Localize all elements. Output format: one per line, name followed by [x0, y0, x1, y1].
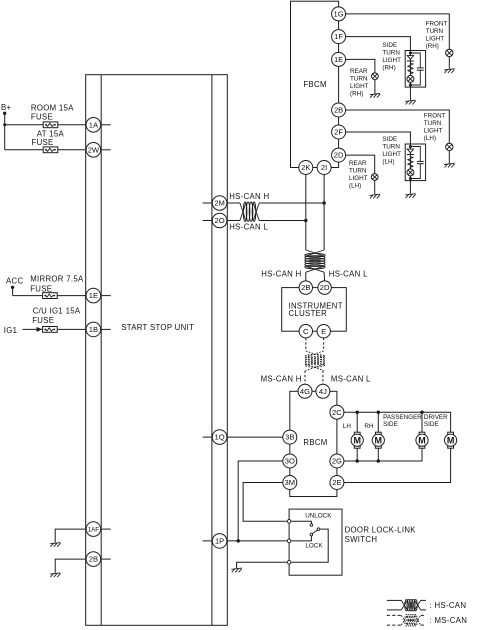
- svg-text:HS-CAN L: HS-CAN L: [329, 270, 368, 279]
- svg-text:RBCM: RBCM: [303, 438, 327, 447]
- svg-text:SIDE: SIDE: [383, 421, 398, 428]
- svg-text:1E: 1E: [334, 55, 343, 64]
- svg-text:MS-CAN H: MS-CAN H: [261, 375, 302, 384]
- svg-text:LOCK: LOCK: [305, 542, 323, 549]
- svg-text:2M: 2M: [214, 199, 225, 208]
- svg-text:1Q: 1Q: [215, 433, 225, 442]
- svg-text:2O: 2O: [215, 216, 225, 225]
- svg-text:REAR: REAR: [349, 160, 367, 167]
- svg-text:(RH): (RH): [382, 65, 395, 72]
- svg-text:1F: 1F: [334, 32, 343, 41]
- svg-text:TURN: TURN: [382, 143, 400, 150]
- svg-text:2B: 2B: [89, 555, 98, 564]
- svg-text:1E: 1E: [89, 291, 98, 300]
- svg-text:TURN: TURN: [349, 167, 367, 174]
- svg-text:LIGHT: LIGHT: [382, 57, 401, 64]
- svg-text:: MS-CAN: : MS-CAN: [430, 616, 468, 625]
- svg-text:RH: RH: [364, 423, 374, 430]
- svg-text:IG1: IG1: [4, 326, 18, 335]
- svg-text:SIDE: SIDE: [424, 421, 439, 428]
- svg-text:SIDE: SIDE: [382, 136, 397, 143]
- svg-text:4G: 4G: [300, 387, 310, 396]
- svg-text:2W: 2W: [88, 145, 100, 154]
- svg-text:FRONT: FRONT: [424, 113, 446, 120]
- svg-text:LIGHT: LIGHT: [424, 128, 443, 135]
- svg-text:1B: 1B: [89, 325, 98, 334]
- svg-text:ACC: ACC: [6, 277, 23, 286]
- svg-text:TURN: TURN: [382, 50, 400, 57]
- svg-text:FUSE: FUSE: [32, 138, 54, 147]
- svg-text:LIGHT: LIGHT: [426, 35, 445, 42]
- svg-text:1A: 1A: [89, 120, 99, 129]
- svg-text:ROOM 15A: ROOM 15A: [31, 104, 74, 113]
- svg-text:M: M: [447, 435, 455, 445]
- svg-text:M: M: [375, 435, 383, 445]
- svg-text:: HS-CAN: : HS-CAN: [430, 601, 467, 610]
- svg-text:SWITCH: SWITCH: [345, 535, 378, 544]
- svg-text:C/U IG1 15A: C/U IG1 15A: [33, 307, 81, 316]
- svg-text:M: M: [418, 435, 426, 445]
- svg-text:3M: 3M: [285, 478, 296, 487]
- svg-text:FBCM: FBCM: [303, 80, 326, 89]
- svg-text:C: C: [303, 327, 309, 336]
- svg-text:1G: 1G: [334, 10, 344, 19]
- svg-text:(LH): (LH): [349, 182, 361, 189]
- svg-text:2I: 2I: [321, 163, 327, 172]
- svg-text:E: E: [321, 327, 326, 336]
- svg-text:4J: 4J: [319, 387, 327, 396]
- svg-text:2B: 2B: [334, 106, 343, 115]
- svg-text:LIGHT: LIGHT: [350, 83, 369, 90]
- svg-text:2C: 2C: [332, 408, 342, 417]
- svg-text:LIGHT: LIGHT: [382, 151, 401, 158]
- svg-text:TURN: TURN: [424, 120, 442, 127]
- svg-text:FUSE: FUSE: [32, 316, 54, 325]
- svg-text:LH: LH: [343, 423, 352, 430]
- svg-text:(LH): (LH): [424, 135, 436, 142]
- svg-text:FUSE: FUSE: [31, 112, 53, 121]
- svg-text:2D: 2D: [320, 283, 330, 292]
- svg-text:2B: 2B: [301, 283, 310, 292]
- svg-text:B+: B+: [1, 103, 12, 112]
- svg-text:SIDE: SIDE: [382, 42, 397, 49]
- svg-text:1AF: 1AF: [88, 527, 100, 534]
- svg-text:DOOR LOCK-LINK: DOOR LOCK-LINK: [345, 525, 417, 534]
- svg-text:1P: 1P: [215, 537, 224, 546]
- svg-text:REAR: REAR: [350, 68, 368, 75]
- svg-text:MIRROR 7.5A: MIRROR 7.5A: [30, 275, 84, 284]
- svg-text:2G: 2G: [332, 457, 342, 466]
- svg-text:(RH): (RH): [350, 91, 363, 98]
- svg-text:HS-CAN L: HS-CAN L: [229, 223, 268, 232]
- svg-text:HS-CAN H: HS-CAN H: [229, 192, 269, 201]
- svg-text:START STOP UNIT: START STOP UNIT: [121, 323, 194, 332]
- svg-text:2K: 2K: [301, 163, 310, 172]
- svg-text:2D: 2D: [334, 151, 344, 160]
- svg-text:(RH): (RH): [426, 43, 439, 50]
- svg-text:2F: 2F: [334, 128, 343, 137]
- svg-text:3B: 3B: [285, 433, 294, 442]
- svg-text:LIGHT: LIGHT: [349, 175, 368, 182]
- svg-text:TURN: TURN: [350, 76, 368, 83]
- svg-text:(LH): (LH): [382, 158, 394, 165]
- svg-text:TURN: TURN: [426, 28, 444, 35]
- svg-text:MS-CAN L: MS-CAN L: [331, 375, 371, 384]
- svg-text:2E: 2E: [332, 478, 341, 487]
- svg-text:CLUSTER: CLUSTER: [289, 309, 328, 318]
- svg-text:FRONT: FRONT: [426, 20, 448, 27]
- svg-text:FUSE: FUSE: [30, 285, 52, 294]
- svg-text:UNLOCK: UNLOCK: [305, 512, 332, 519]
- svg-text:HS-CAN H: HS-CAN H: [261, 270, 301, 279]
- svg-text:M: M: [353, 435, 361, 445]
- svg-text:3O: 3O: [285, 457, 295, 466]
